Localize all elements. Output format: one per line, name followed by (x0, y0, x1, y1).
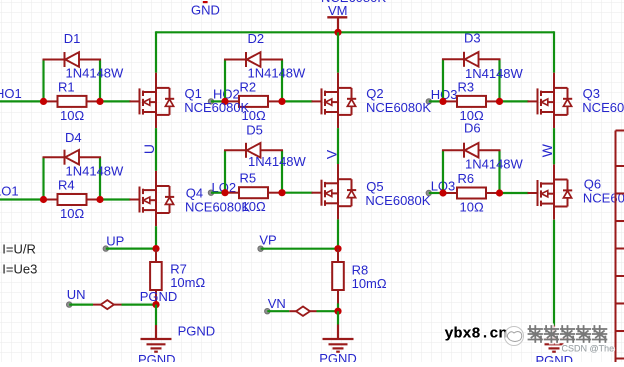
port VN (265, 309, 270, 314)
wire D4 right vertical (99, 157, 101, 199)
svg-text:UN: UN (67, 287, 86, 302)
resistor R2 (225, 96, 282, 107)
wire HO3 (429, 100, 443, 102)
svg-text:NCE6080K: NCE6080K (582, 100, 624, 115)
node HO3-R3 junction (439, 98, 446, 105)
ground PGND phase V (337, 311, 339, 324)
svg-text:10mΩ: 10mΩ (352, 276, 387, 291)
resistor R8 (332, 249, 344, 304)
svg-text:10Ω: 10Ω (60, 206, 84, 221)
svg-text:D6: D6 (464, 121, 481, 136)
transistor Q1 (130, 73, 175, 128)
port UN (67, 302, 72, 307)
diode D2 (224, 52, 283, 67)
node R5-Q5 junction (278, 189, 285, 196)
svg-text:R6: R6 (458, 171, 475, 186)
diode D6 (442, 143, 501, 158)
ground PGND phase U (155, 305, 157, 325)
svg-text:Q2: Q2 (366, 86, 383, 101)
svg-text:LO1: LO1 (0, 183, 19, 198)
resistor R7 (150, 249, 162, 305)
svg-text:10Ω: 10Ω (460, 200, 484, 215)
diode D5 (224, 143, 283, 158)
wire D1 right vertical (99, 60, 101, 102)
wire R6 to Q6 gate (500, 192, 529, 194)
svg-text:Q5: Q5 (366, 179, 383, 194)
svg-text:1N4148W: 1N4148W (248, 66, 307, 81)
node VM junction (334, 29, 341, 36)
svg-text:NCE6080K: NCE6080K (185, 200, 250, 215)
wire R3 to Q3 gate (500, 100, 529, 102)
wire D3 left vertical (442, 59, 444, 101)
wire phase U Q1 to Q4 (155, 128, 157, 171)
transistor Q3 (528, 73, 573, 128)
no-ERC diamond on VN wire (289, 307, 316, 316)
node PGND U junction (152, 301, 159, 308)
svg-text:1N4148W: 1N4148W (66, 66, 125, 81)
svg-text:NCE6080K: NCE6080K (184, 100, 249, 115)
svg-text:HO1: HO1 (0, 86, 22, 101)
svg-text:D5: D5 (246, 123, 263, 138)
svg-text:PGND: PGND (178, 324, 216, 339)
wire LO3 (429, 192, 443, 194)
svg-text:Q4: Q4 (186, 186, 203, 201)
svg-text:1N4148W: 1N4148W (248, 154, 307, 169)
svg-text:1N4148W: 1N4148W (465, 157, 524, 172)
svg-text:10mΩ: 10mΩ (170, 275, 205, 290)
diode D3 (442, 52, 501, 67)
wire R8 to VN junction (337, 303, 339, 311)
wire D1 left vertical (42, 60, 44, 102)
svg-text:R1: R1 (58, 79, 75, 94)
node LO1-R4 junction (40, 196, 47, 203)
wire D3 right vertical (498, 59, 500, 101)
svg-text:VN: VN (268, 296, 286, 311)
svg-text:D2: D2 (248, 31, 265, 46)
diode D4 (43, 150, 102, 165)
wire R2 to Q2 gate (282, 100, 313, 102)
wire phase V Q2 to Q5 (337, 128, 339, 164)
svg-text:CSDN @The: CSDN @The (562, 343, 615, 353)
wire bus to Q1 drain (155, 31, 157, 72)
svg-text:1N4148W: 1N4148W (66, 163, 125, 178)
node UP junction (152, 245, 159, 252)
svg-text:PGND: PGND (140, 289, 178, 304)
wire bus to Q2 drain (337, 32, 339, 72)
node HO2-R2 junction (221, 98, 228, 105)
node R1-Q1 junction (96, 98, 103, 105)
wire HO1 (0, 100, 44, 102)
wire VM bus (156, 31, 554, 33)
wire diamond to PGND node U (122, 304, 157, 306)
svg-text:I=Ue3: I=Ue3 (2, 262, 37, 277)
node HO1-R1 junction (40, 98, 47, 105)
svg-text:NCE6080K: NCE6080K (366, 100, 431, 115)
svg-text:10Ω: 10Ω (60, 108, 84, 123)
svg-text:D1: D1 (64, 31, 81, 46)
wire LO1 (0, 198, 44, 200)
diode D1 (43, 52, 102, 67)
resistor R6 (443, 188, 500, 199)
svg-text:D4: D4 (65, 130, 82, 145)
svg-text:ybx8.cn: ybx8.cn (445, 325, 508, 342)
node LO3-R6 junction (439, 189, 446, 196)
svg-text:W: W (539, 143, 555, 157)
svg-text:R4: R4 (58, 178, 75, 193)
ground PGND phase W (553, 220, 555, 326)
node R2-Q2 junction (278, 98, 285, 105)
port HO3 (426, 99, 431, 104)
wire R5 to Q5 gate (282, 192, 313, 194)
svg-text:R5: R5 (240, 171, 257, 186)
port HO2 (208, 99, 213, 104)
wire R1 to Q1 gate (100, 100, 131, 102)
svg-text:Q6: Q6 (584, 177, 601, 192)
resistor R3 (443, 96, 500, 107)
wire D2 left vertical (224, 60, 226, 102)
svg-text:PGND: PGND (536, 353, 574, 362)
transistor Q4 (130, 171, 175, 226)
svg-text:R3: R3 (458, 79, 475, 94)
resistor R1 (44, 96, 101, 107)
wire bus to Q3 drain (553, 31, 555, 72)
svg-text:VM: VM (328, 3, 348, 18)
wire D2 right vertical (281, 60, 283, 102)
wire D6 right vertical (498, 150, 500, 193)
wire D4 left vertical (42, 157, 44, 199)
wire VP (261, 248, 338, 250)
node R3-Q3 junction (496, 98, 503, 105)
transistor Q2 (312, 73, 357, 128)
wire LO2 (211, 192, 225, 194)
svg-text:Q1: Q1 (185, 86, 202, 101)
node R6-Q6 junction (496, 189, 503, 196)
node VP junction (334, 245, 341, 252)
svg-text:VP: VP (259, 233, 276, 248)
resistor R4 (44, 194, 101, 205)
wire D5 right vertical (281, 150, 283, 192)
wire Q5 source to VP node (337, 219, 339, 248)
svg-text:PGND: PGND (319, 351, 357, 362)
wire diamond to PGND node V (317, 310, 339, 312)
node PGND V junction (334, 308, 341, 315)
port UP (103, 246, 108, 251)
wire UP (106, 248, 156, 250)
wire HO2 (211, 100, 225, 102)
wire Q4 source to UP node (155, 226, 157, 248)
wire D6 left vertical (442, 150, 444, 193)
wire VN to diamond (267, 310, 289, 312)
svg-text:Q3: Q3 (583, 86, 600, 101)
svg-text:PGND: PGND (138, 352, 176, 362)
svg-text:UP: UP (106, 234, 124, 249)
svg-text:R2: R2 (240, 79, 257, 94)
node R4-Q4 junction (96, 196, 103, 203)
no-ERC diamond on UN wire (93, 300, 122, 309)
transistor Q5 (312, 164, 357, 219)
svg-text:V: V (324, 149, 340, 159)
connector clipped at right edge (616, 131, 624, 363)
watermark chinese text (529, 326, 607, 342)
wire UN to diamond (69, 304, 93, 306)
resistor R5 (225, 187, 282, 198)
svg-text:D3: D3 (464, 30, 481, 45)
svg-text:GND: GND (191, 3, 220, 18)
watermark logo circle (505, 327, 524, 346)
port LO2 (208, 190, 213, 195)
transistor Q6 (528, 164, 573, 219)
wire D5 left vertical (224, 150, 226, 192)
svg-text:I=U/R: I=U/R (2, 241, 36, 256)
node LO2-R5 junction (221, 189, 228, 196)
svg-text:U: U (141, 144, 157, 154)
port LO3 (426, 190, 431, 195)
wire R4 to Q4 gate (100, 198, 131, 200)
negation bar over GND (203, 1, 208, 3)
wire phase W Q3 to Q6 (553, 128, 555, 164)
svg-text:NCE6080K: NCE6080K (365, 193, 430, 208)
port VP (258, 246, 263, 251)
